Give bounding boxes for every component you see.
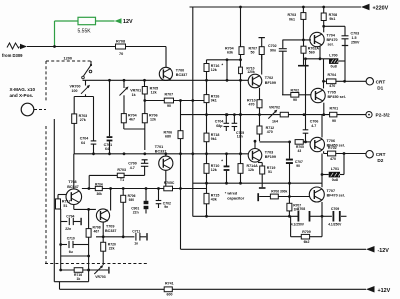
svg-text:1k: 1k	[77, 277, 81, 281]
svg-text:1k: 1k	[132, 93, 136, 97]
svg-text:467: 467	[94, 229, 100, 233]
svg-text:P2-3/2: P2-3/2	[376, 113, 390, 119]
svg-text:-12V: -12V	[378, 248, 390, 254]
svg-text:CRT: CRT	[376, 79, 386, 84]
svg-text:12k: 12k	[211, 68, 217, 72]
svg-text:* wired: * wired	[225, 192, 238, 196]
svg-text:560: 560	[309, 51, 315, 55]
svg-text:BC337: BC337	[155, 149, 166, 153]
svg-text:22n: 22n	[133, 210, 139, 214]
svg-text:4.7: 4.7	[130, 166, 135, 170]
svg-text:9k1: 9k1	[329, 17, 335, 21]
svg-text:L701: L701	[331, 167, 339, 171]
svg-text:250V: 250V	[351, 41, 360, 45]
svg-text:1n: 1n	[134, 242, 138, 246]
svg-text:27k: 27k	[80, 118, 86, 122]
svg-text:9k1: 9k1	[211, 137, 217, 141]
svg-text:C710: C710	[67, 237, 75, 241]
svg-text:R701: R701	[330, 107, 339, 111]
svg-text:T701: T701	[155, 145, 163, 149]
svg-text:12k: 12k	[150, 118, 156, 122]
svg-text:C702: C702	[268, 44, 277, 48]
svg-text:T706: T706	[327, 139, 335, 143]
svg-text:T708: T708	[68, 180, 76, 184]
svg-text:470: 470	[249, 103, 255, 107]
svg-text:and X-Pos.: and X-Pos.	[10, 93, 34, 98]
svg-text:1k4: 1k4	[272, 120, 278, 124]
svg-text:0u8: 0u8	[332, 178, 338, 182]
svg-text:70: 70	[119, 52, 123, 56]
svg-text:R702: R702	[291, 88, 300, 92]
svg-text:470: 470	[330, 157, 336, 161]
svg-text:0k1: 0k1	[289, 17, 295, 21]
svg-text:43k: 43k	[211, 198, 217, 202]
svg-text:capacitor: capacitor	[227, 197, 244, 201]
svg-text:R707: R707	[165, 92, 174, 96]
svg-text:T707: T707	[327, 189, 335, 193]
svg-text:D2: D2	[377, 158, 383, 163]
svg-text:T703: T703	[265, 150, 273, 154]
svg-text:5.55K: 5.55K	[78, 29, 92, 35]
svg-text:C794: C794	[66, 214, 74, 218]
svg-text:1200: 1200	[64, 56, 72, 60]
svg-text:C707: C707	[295, 160, 303, 164]
svg-text:6u: 6u	[69, 250, 73, 254]
svg-text:120k: 120k	[247, 70, 255, 74]
svg-text:R706 300k: R706 300k	[271, 190, 287, 194]
svg-text:R704: R704	[95, 182, 103, 186]
svg-text:X-MAG. x10: X-MAG. x10	[10, 87, 36, 92]
svg-text:T1: T1	[120, 178, 124, 182]
svg-text:T702: T702	[265, 76, 273, 80]
svg-text:4.7: 4.7	[311, 124, 316, 128]
svg-text:12n: 12n	[237, 134, 243, 138]
svg-text:T705: T705	[328, 91, 336, 95]
svg-text:C704: C704	[215, 119, 224, 123]
svg-text:VR703: VR703	[95, 275, 105, 279]
svg-text:R704: R704	[328, 73, 337, 77]
svg-text:L700: L700	[329, 54, 337, 58]
svg-text:90: 90	[332, 119, 336, 123]
svg-text:C711: C711	[132, 229, 140, 233]
svg-text:90: 90	[296, 164, 300, 168]
svg-text:12k: 12k	[248, 168, 254, 172]
svg-text:R709: R709	[302, 230, 310, 234]
svg-text:sel.: sel.	[328, 42, 334, 46]
svg-text:R703: R703	[117, 168, 126, 172]
svg-text:63k: 63k	[227, 51, 233, 55]
svg-text:BF199: BF199	[265, 81, 276, 85]
svg-text:BF199: BF199	[265, 155, 276, 159]
svg-text:51: 51	[63, 204, 67, 208]
svg-text:C706: C706	[310, 119, 319, 123]
svg-text:12k: 12k	[151, 90, 157, 94]
svg-text:51: 51	[268, 170, 272, 174]
svg-text:+220V: +220V	[373, 5, 389, 11]
svg-text:1.5: 1.5	[352, 36, 357, 40]
svg-text:C700: C700	[128, 161, 137, 165]
svg-text:90n: 90n	[270, 49, 276, 53]
svg-text:470: 470	[267, 130, 273, 134]
svg-text:BF450 sel.: BF450 sel.	[328, 95, 346, 99]
svg-text:BC547: BC547	[67, 185, 78, 189]
svg-text:64: 64	[105, 147, 109, 151]
svg-text:100: 100	[72, 89, 78, 93]
svg-text:R705C: R705C	[164, 181, 175, 185]
svg-text:BC337: BC337	[176, 73, 187, 77]
svg-text:R702: R702	[328, 146, 337, 150]
svg-text:C708: C708	[297, 207, 305, 211]
svg-text:12k: 12k	[211, 168, 217, 172]
svg-text:R741: R741	[165, 282, 174, 286]
svg-text:CRT: CRT	[376, 152, 386, 157]
svg-text:9k1: 9k1	[211, 99, 217, 103]
svg-text:22n: 22n	[65, 227, 71, 231]
svg-text:C704: C704	[80, 136, 89, 140]
svg-text:470: 470	[329, 84, 335, 88]
svg-text:VR702: VR702	[269, 106, 280, 110]
svg-text:6k2: 6k2	[304, 240, 310, 244]
svg-text:9n: 9n	[164, 205, 168, 209]
svg-text:930: 930	[129, 198, 135, 202]
svg-text:43: 43	[298, 149, 302, 153]
svg-text:4.1/250V: 4.1/250V	[291, 222, 305, 226]
svg-text:D1: D1	[377, 85, 383, 90]
svg-text:64: 64	[81, 141, 85, 145]
svg-text:36k: 36k	[97, 192, 103, 196]
svg-text:90: 90	[293, 98, 297, 102]
svg-text:600: 600	[167, 292, 173, 296]
svg-text:BF470 sel.: BF470 sel.	[327, 193, 345, 197]
svg-text:C703: C703	[351, 32, 360, 36]
svg-text:T709: T709	[106, 224, 114, 228]
svg-text:R708: R708	[116, 40, 125, 44]
svg-text:12V: 12V	[123, 19, 133, 25]
svg-text:90: 90	[167, 104, 171, 108]
svg-text:0u8: 0u8	[331, 65, 337, 69]
svg-text:T704: T704	[327, 34, 336, 38]
svg-text:4.1/250V: 4.1/250V	[328, 222, 342, 226]
svg-text:T700: T700	[176, 68, 184, 72]
svg-text:68p: 68p	[216, 124, 223, 128]
svg-text:680: 680	[165, 135, 171, 139]
svg-text:from D309: from D309	[2, 53, 23, 58]
svg-text:+12V: +12V	[378, 288, 391, 294]
svg-text:BC337: BC337	[105, 229, 116, 233]
svg-text:C709: C709	[331, 207, 339, 211]
svg-text:50: 50	[251, 51, 255, 55]
svg-text:4k7: 4k7	[129, 118, 135, 122]
svg-text:22k: 22k	[109, 247, 115, 251]
svg-text:*: *	[221, 158, 223, 163]
